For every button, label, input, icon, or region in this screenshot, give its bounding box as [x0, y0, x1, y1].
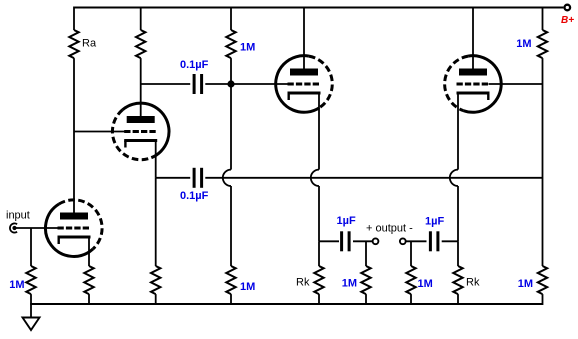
svg-text:+ output -: + output - [366, 223, 413, 235]
svg-text:Rk: Rk [466, 277, 480, 289]
svg-text:1M: 1M [518, 278, 533, 290]
svg-text:1M: 1M [240, 281, 255, 293]
svg-text:0.1µF: 0.1µF [180, 59, 209, 71]
svg-text:1M: 1M [342, 278, 357, 290]
svg-text:1µF: 1µF [425, 216, 444, 228]
svg-text:0.1µF: 0.1µF [180, 190, 209, 202]
svg-text:1µF: 1µF [337, 215, 356, 227]
svg-text:1M: 1M [516, 38, 531, 50]
svg-text:Rk: Rk [296, 277, 310, 289]
svg-text:input: input [6, 210, 30, 222]
svg-text:1M: 1M [418, 278, 433, 290]
svg-text:Ra: Ra [82, 38, 97, 50]
svg-text:B+: B+ [561, 15, 574, 26]
svg-text:1M: 1M [9, 279, 24, 291]
svg-text:1M: 1M [240, 42, 255, 54]
